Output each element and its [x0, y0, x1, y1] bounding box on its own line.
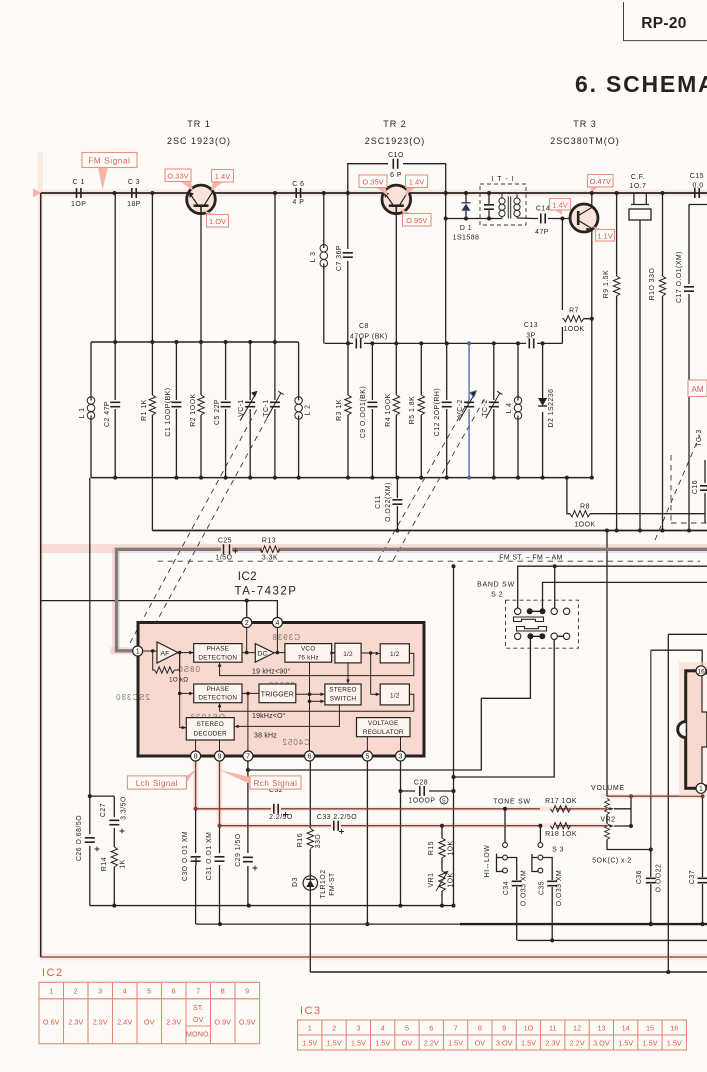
svg-text:1/2: 1/2 [343, 651, 353, 658]
svg-text:1: 1 [699, 786, 703, 793]
svg-text:1.1V: 1.1V [597, 232, 612, 241]
svg-text:C17 O.O1(XM): C17 O.O1(XM) [676, 251, 683, 303]
svg-text:TR 2: TR 2 [383, 119, 407, 129]
svg-text:O.9V: O.9V [239, 1018, 256, 1027]
svg-text:9: 9 [502, 1024, 506, 1033]
svg-text:C8: C8 [359, 323, 369, 330]
svg-text:S 2: S 2 [491, 592, 503, 599]
svg-text:C 6: C 6 [292, 181, 304, 188]
svg-text:C35: C35 [539, 881, 546, 895]
svg-text:7: 7 [246, 754, 250, 761]
svg-text:5: 5 [365, 754, 369, 761]
svg-text:VOLUME: VOLUME [591, 785, 625, 792]
svg-text:1OOK: 1OOK [574, 522, 595, 529]
svg-text:R1 1K: R1 1K [141, 399, 148, 421]
svg-text:1OP: 1OP [71, 201, 86, 208]
svg-text:C31 O.O1 XM: C31 O.O1 XM [206, 832, 213, 881]
svg-text:8: 8 [221, 987, 225, 996]
svg-text:16: 16 [670, 1024, 678, 1033]
svg-text:O.9V: O.9V [214, 1018, 231, 1027]
svg-text:DECODER: DECODER [194, 731, 228, 738]
svg-text:2SC 1923(O): 2SC 1923(O) [167, 136, 231, 146]
svg-text:0.0: 0.0 [692, 183, 703, 190]
svg-text:R18 1OK: R18 1OK [545, 831, 577, 838]
svg-text:O.O33 XM: O.O33 XM [556, 870, 563, 907]
svg-text:OV: OV [402, 1039, 413, 1048]
svg-text:MONO.: MONO. [186, 1030, 211, 1039]
svg-text:C7 36P: C7 36P [336, 245, 343, 271]
svg-text:3: 3 [356, 1024, 360, 1033]
svg-text:C1O: C1O [388, 152, 404, 159]
svg-text:HI↔LOW: HI↔LOW [484, 845, 491, 877]
svg-text:R3 1K: R3 1K [336, 399, 343, 421]
svg-text:4: 4 [381, 1024, 385, 1033]
svg-text:RP-20: RP-20 [641, 15, 686, 32]
svg-text:Lch Signal: Lch Signal [136, 779, 178, 788]
svg-text:S: S [442, 799, 446, 805]
svg-text:C 1: C 1 [73, 179, 85, 186]
svg-text:O.95V: O.95V [406, 216, 427, 225]
svg-text:R2 1OOK: R2 1OOK [190, 393, 197, 426]
svg-text:VOLTAGE: VOLTAGE [368, 720, 399, 727]
svg-text:1O kΩ: 1O kΩ [169, 677, 188, 684]
svg-text:TR 1: TR 1 [187, 119, 211, 129]
svg-text:6. SCHEMATIC DIAGRAM: 6. SCHEMATIC DIAGRAM [575, 71, 707, 97]
svg-text:1.5V: 1.5V [642, 1039, 657, 1048]
svg-text:1.5V: 1.5V [351, 1039, 366, 1048]
svg-text:1/2: 1/2 [390, 651, 400, 658]
svg-text:1.5V: 1.5V [375, 1039, 390, 1048]
svg-text:C4052: C4052 [281, 738, 310, 747]
svg-text:18P: 18P [127, 201, 141, 208]
svg-text:C25: C25 [218, 538, 232, 545]
svg-text:D3: D3 [292, 877, 299, 887]
svg-text:R14: R14 [101, 857, 108, 871]
svg-text:47P: 47P [535, 229, 549, 236]
svg-text:C28: C28 [414, 780, 428, 787]
svg-text:C 3: C 3 [128, 179, 140, 186]
svg-text:1O.7: 1O.7 [630, 183, 647, 190]
svg-text:3.3/5O: 3.3/5O [121, 796, 128, 820]
svg-text:TC-1: TC-1 [263, 399, 270, 416]
svg-text:1: 1 [308, 1024, 312, 1033]
svg-text:C13: C13 [524, 322, 538, 329]
svg-text:1K: 1K [120, 859, 127, 868]
svg-text:L 3: L 3 [310, 252, 317, 263]
svg-text:R17 1OK: R17 1OK [545, 798, 577, 805]
svg-text:1.5V: 1.5V [521, 1039, 536, 1048]
svg-text:IC3: IC3 [300, 1005, 322, 1017]
svg-text:AM: AM [692, 385, 704, 394]
svg-text:C33 2.2/5O: C33 2.2/5O [317, 814, 357, 821]
svg-text:AF: AF [160, 650, 169, 657]
svg-text:C1 1OOP(BK): C1 1OOP(BK) [165, 387, 172, 436]
svg-text:ST.: ST. [193, 1003, 204, 1012]
svg-text:08S0: 08S0 [177, 665, 200, 674]
svg-text:R15: R15 [428, 841, 435, 855]
svg-text:3.OV: 3.OV [496, 1039, 513, 1048]
svg-text:47OP (BK): 47OP (BK) [350, 334, 388, 341]
svg-text:S 3: S 3 [552, 847, 564, 854]
svg-text:6 P: 6 P [390, 172, 402, 179]
svg-text:VR2: VR2 [601, 817, 616, 824]
svg-text:OV: OV [193, 1015, 204, 1024]
svg-text:2.3V: 2.3V [68, 1018, 83, 1027]
svg-text:TRIGGER: TRIGGER [261, 692, 294, 699]
svg-text:4: 4 [275, 620, 279, 627]
svg-text:L 2: L 2 [305, 405, 312, 416]
svg-text:2.3V: 2.3V [166, 1018, 181, 1027]
svg-text:TC-2: TC-2 [482, 399, 489, 416]
svg-text:C37: C37 [689, 870, 696, 884]
svg-text:C12 2OP(RH): C12 2OP(RH) [434, 388, 441, 436]
svg-text:14: 14 [622, 1024, 630, 1033]
svg-text:1.4V: 1.4V [409, 178, 424, 187]
svg-text:C36: C36 [636, 870, 643, 884]
svg-text:1.OV: 1.OV [209, 217, 226, 226]
svg-text:DETECTION: DETECTION [198, 654, 237, 661]
svg-text:FM ST. – FM – AM: FM ST. – FM – AM [499, 555, 562, 562]
svg-text:2SC380: 2SC380 [115, 693, 150, 702]
svg-text:R7: R7 [569, 308, 579, 315]
svg-text:8: 8 [194, 754, 198, 761]
svg-text:76 kHz: 76 kHz [298, 654, 319, 661]
svg-text:D 1: D 1 [460, 225, 472, 232]
svg-text:TLR1O2: TLR1O2 [320, 869, 327, 898]
svg-text:1S1588: 1S1588 [453, 235, 480, 242]
svg-text:38 kHz: 38 kHz [254, 733, 277, 740]
svg-text:DC: DC [257, 651, 267, 658]
svg-text:1: 1 [49, 987, 53, 996]
svg-text:PHASE: PHASE [206, 646, 229, 653]
svg-text:3: 3 [98, 987, 102, 996]
svg-text:1OOK: 1OOK [563, 326, 584, 333]
svg-text:4 P: 4 P [292, 199, 304, 206]
svg-text:5: 5 [405, 1024, 409, 1033]
svg-text:R1O 33O: R1O 33O [649, 268, 656, 301]
svg-text:L 4: L 4 [506, 403, 513, 414]
svg-text:TR 3: TR 3 [573, 119, 597, 129]
svg-text:D2 1S2236: D2 1S2236 [548, 389, 555, 428]
svg-text:2SC1923(O): 2SC1923(O) [365, 136, 426, 146]
svg-text:3P: 3P [526, 333, 535, 340]
svg-text:O.47V: O.47V [590, 177, 611, 186]
svg-text:C15: C15 [690, 173, 704, 180]
svg-text:TA-7432P: TA-7432P [235, 586, 298, 598]
svg-text:Rch Signal: Rch Signal [254, 779, 298, 788]
svg-text:2.2V: 2.2V [570, 1039, 585, 1048]
svg-text:OV: OV [475, 1039, 486, 1048]
svg-text:33O: 33O [315, 834, 322, 849]
svg-text:BAND SW: BAND SW [477, 582, 515, 589]
svg-text:1.5V: 1.5V [618, 1039, 633, 1048]
svg-text:IC2: IC2 [42, 967, 64, 979]
svg-text:SWITCH: SWITCH [330, 696, 357, 703]
svg-text:FM-ST: FM-ST [329, 872, 336, 896]
svg-text:R4 1OOK: R4 1OOK [385, 393, 392, 426]
svg-text:1O: 1O [524, 1024, 534, 1033]
svg-text:O.33V: O.33V [167, 172, 188, 181]
svg-text:2.2/5O: 2.2/5O [269, 814, 293, 821]
svg-text:1: 1 [136, 649, 140, 656]
svg-text:1.4V: 1.4V [552, 201, 567, 210]
svg-text:7: 7 [454, 1024, 458, 1033]
svg-text:O.O33 XM: O.O33 XM [521, 870, 528, 907]
svg-text:DETECTION: DETECTION [198, 695, 237, 702]
svg-text:2.2V: 2.2V [424, 1039, 439, 1048]
svg-text:9: 9 [218, 754, 222, 761]
svg-text:O.O22(XM): O.O22(XM) [385, 482, 392, 522]
svg-text:15: 15 [646, 1024, 654, 1033]
svg-text:REGULATOR: REGULATOR [363, 729, 404, 736]
svg-text:C16: C16 [692, 480, 699, 494]
svg-text:I T - I: I T - I [492, 176, 515, 183]
svg-text:VC-1: VC-1 [238, 399, 245, 417]
svg-text:7: 7 [196, 987, 200, 996]
svg-text:O.35V: O.35V [362, 178, 383, 187]
svg-text:6: 6 [429, 1024, 433, 1033]
svg-text:C34: C34 [503, 881, 510, 895]
svg-text:VCO: VCO [301, 646, 315, 653]
svg-text:IC2: IC2 [238, 571, 257, 583]
svg-text:1OOOP: 1OOOP [408, 798, 435, 805]
svg-text:2.4V: 2.4V [117, 1018, 132, 1027]
svg-text:STEREO: STEREO [329, 687, 356, 694]
svg-text:11: 11 [549, 1024, 557, 1033]
svg-text:19kHz<O°: 19kHz<O° [252, 712, 286, 720]
svg-text:2: 2 [245, 620, 249, 627]
svg-text:OV: OV [144, 1018, 155, 1027]
svg-text:12: 12 [573, 1024, 581, 1033]
svg-text:R9 1.5K: R9 1.5K [603, 270, 610, 298]
svg-text:2SC380TM(O): 2SC380TM(O) [550, 136, 620, 146]
svg-text:6: 6 [308, 754, 312, 761]
svg-text:1/5O: 1/5O [216, 555, 233, 562]
svg-text:3: 3 [399, 754, 403, 761]
svg-text:6: 6 [172, 987, 176, 996]
svg-text:5: 5 [147, 987, 151, 996]
svg-text:2: 2 [332, 1024, 336, 1033]
svg-text:R8: R8 [580, 504, 590, 511]
svg-text:1.5V: 1.5V [448, 1039, 463, 1048]
svg-text:R5 1.8K: R5 1.8K [409, 396, 416, 424]
svg-text:VR1: VR1 [428, 873, 435, 888]
svg-text:1/2: 1/2 [390, 693, 400, 700]
svg-text:C11: C11 [375, 495, 382, 509]
svg-text:3.3K: 3.3K [262, 555, 278, 562]
svg-text:C5 22P: C5 22P [214, 399, 221, 425]
svg-text:O.OO22: O.OO22 [656, 864, 663, 893]
svg-text:C3938: C3938 [271, 633, 300, 642]
svg-text:C3O O.O1 XM: C3O O.O1 XM [182, 831, 189, 881]
svg-text:4: 4 [123, 987, 127, 996]
svg-text:TONE SW: TONE SW [493, 799, 531, 806]
svg-text:1.4V: 1.4V [215, 172, 230, 181]
svg-text:1.5V: 1.5V [302, 1039, 317, 1048]
svg-text:C9 O.OO1(BK): C9 O.OO1(BK) [360, 386, 367, 438]
svg-text:VC-2: VC-2 [457, 399, 464, 417]
svg-text:O.6V: O.6V [43, 1018, 60, 1027]
svg-text:1OK: 1OK [448, 872, 455, 887]
svg-text:L 1: L 1 [79, 408, 86, 419]
svg-text:2.3V: 2.3V [545, 1039, 560, 1048]
svg-text:C26 O.68/5O: C26 O.68/5O [76, 815, 83, 861]
svg-text:FM Signal: FM Signal [88, 157, 130, 166]
svg-text:3.OV: 3.OV [593, 1039, 610, 1048]
svg-text:C27: C27 [100, 803, 107, 817]
svg-text:C2 47P: C2 47P [104, 401, 111, 427]
svg-text:1OK: 1OK [448, 840, 455, 855]
svg-text:5OK(C) x 2: 5OK(C) x 2 [592, 858, 631, 865]
svg-text:C29 1/5O: C29 1/5O [235, 833, 242, 867]
svg-text:19 kHz<90°: 19 kHz<90° [252, 668, 290, 676]
svg-text:1.5V: 1.5V [327, 1039, 342, 1048]
svg-text:8: 8 [478, 1024, 482, 1033]
svg-text:1.5V: 1.5V [667, 1039, 682, 1048]
svg-text:TC-3: TC-3 [696, 429, 703, 446]
svg-text:2: 2 [74, 987, 78, 996]
svg-text:C.F.: C.F. [631, 174, 645, 181]
svg-text:9: 9 [245, 987, 249, 996]
svg-text:R13: R13 [262, 538, 276, 545]
svg-text:16: 16 [697, 668, 705, 675]
svg-text:R16: R16 [297, 833, 304, 847]
svg-text:STEREO: STEREO [196, 721, 223, 728]
svg-text:2.9V: 2.9V [93, 1018, 108, 1027]
svg-text:C14: C14 [536, 206, 550, 213]
svg-text:PHASE: PHASE [206, 686, 229, 693]
svg-text:13: 13 [597, 1024, 605, 1033]
